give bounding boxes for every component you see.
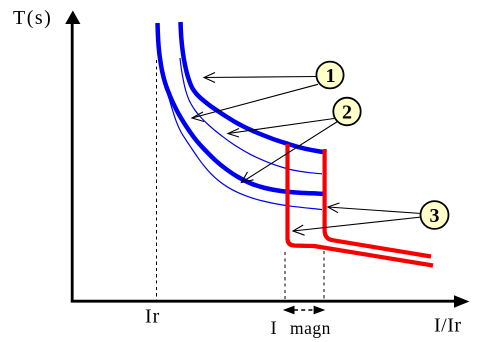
label T(s) — [13, 7, 52, 29]
svg-text:T(s): T(s) — [13, 7, 52, 29]
y-axis arrowhead — [65, 11, 80, 25]
dashed vertical line at Ir — [156, 60, 158, 300]
svg-text:3: 3 — [430, 205, 440, 227]
label I magn — [271, 318, 331, 339]
thick blue curve 2 (upper long-time trip curve) — [181, 22, 327, 152]
label I/Ir — [434, 315, 462, 337]
red magnetic trip curve left (lower setting) — [288, 144, 434, 266]
svg-text:I: I — [271, 319, 278, 339]
double-headed arrow for I magn range — [283, 306, 326, 315]
leader line from balloon 3 to right red curve — [328, 203, 422, 214]
svg-text:1: 1 — [326, 65, 336, 87]
balloon 2 — [333, 98, 360, 126]
y-axis line — [71, 21, 74, 302]
thick blue curve 1 (lower long-time trip curve) — [158, 23, 326, 194]
svg-text:Ir: Ir — [145, 306, 160, 328]
leader line from balloon 3 to left red curve — [293, 217, 422, 235]
balloon 1 — [316, 62, 343, 89]
x-axis arrowhead — [454, 295, 470, 307]
thin tolerance curve A (inner, below curve 2) — [180, 58, 322, 174]
svg-text:2: 2 — [342, 102, 352, 124]
thin tolerance curve B (inner, below curve 1) — [162, 72, 322, 210]
dashed vertical line at right magnetic threshold — [323, 251, 325, 299]
svg-text:magn: magn — [290, 318, 331, 338]
leader line from balloon 2 to curve 1 — [241, 122, 337, 183]
red magnetic trip curve right (upper setting) — [325, 149, 431, 257]
label Ir — [145, 306, 160, 328]
leader line from balloon 1 to curve 2 — [204, 73, 317, 83]
balloon 3 — [421, 201, 449, 229]
dashed vertical line at left magnetic threshold — [284, 252, 286, 299]
leader line from balloon 1 to thin curve A — [192, 84, 318, 121]
leader line from balloon 2 to thin curve A lower part — [228, 119, 334, 138]
svg-text:I/Ir: I/Ir — [434, 315, 462, 337]
x-axis line — [71, 300, 456, 303]
